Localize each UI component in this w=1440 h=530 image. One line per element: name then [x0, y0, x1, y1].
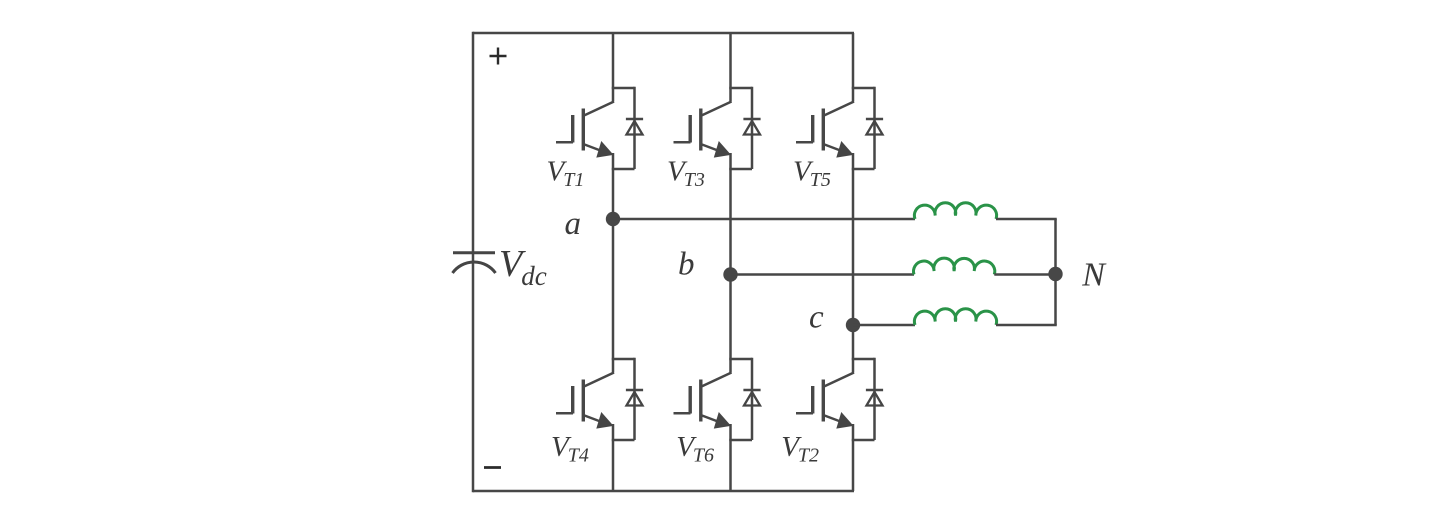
wire: collector jog of VT2 — [852, 358, 875, 361]
capacitor Vdc (DC-link) — [453, 253, 496, 273]
wire: collector jog of VT4 — [612, 358, 635, 361]
wire: leg b upper collector segment — [729, 33, 732, 102]
svg-text:VT1: VT1 — [547, 156, 585, 192]
wire: neutral vertical bus — [1054, 219, 1057, 325]
transistor VT6 (IGBT) — [674, 373, 732, 429]
svg-text:VT3: VT3 — [667, 156, 705, 192]
wire: leg a lower emitter segment — [612, 424, 615, 491]
wire: phase b to inductor — [731, 273, 915, 276]
wire: leg c mid segment — [852, 153, 855, 373]
wire: bottom DC bus rail — [473, 490, 854, 493]
transistor VT5 (IGBT) — [796, 102, 854, 158]
diode D-VT2 (antiparallel) — [866, 358, 883, 440]
node c (junction dot) — [846, 318, 860, 332]
wire: inductor Lc to node N branch — [996, 324, 1057, 327]
transistor VT2 (IGBT) — [796, 373, 854, 429]
wire: phase a to inductor — [613, 218, 915, 221]
node N (junction dot) — [1048, 267, 1062, 281]
wire: emitter jog of VT1 — [612, 168, 635, 171]
wire: leg c upper collector segment — [852, 33, 855, 102]
diode D-VT6 (antiparallel) — [743, 358, 760, 440]
wire: inductor La to node N branch — [996, 218, 1057, 221]
wire: leg a mid segment — [612, 153, 615, 373]
wire: left DC rail — [472, 32, 475, 493]
wire: collector jog of VT5 — [852, 87, 875, 90]
svg-text:Vdc: Vdc — [499, 243, 547, 291]
wire: collector jog of VT1 — [612, 87, 635, 90]
wire: collector jog of VT3 — [729, 87, 752, 90]
wire: emitter jog of VT2 — [852, 439, 875, 442]
svg-text:b: b — [678, 247, 695, 283]
wire: emitter jog of VT6 — [729, 439, 752, 442]
svg-text:VT4: VT4 — [551, 431, 589, 467]
svg-text:a: a — [565, 206, 582, 242]
svg-text:VT5: VT5 — [793, 156, 831, 192]
wire: leg a upper collector segment — [612, 33, 615, 102]
wire: inductor Lb to node N — [994, 273, 1055, 276]
svg-text:VT2: VT2 — [781, 431, 819, 467]
wire: leg b mid segment — [729, 153, 732, 373]
diode D-VT1 (antiparallel) — [626, 87, 643, 169]
transistor VT4 (IGBT) — [556, 373, 614, 429]
wire: leg b lower emitter segment — [729, 424, 732, 491]
wire: collector jog of VT6 — [729, 358, 752, 361]
inductor La (phase a) — [914, 203, 996, 219]
wire: top DC bus rail — [473, 32, 854, 35]
svg-text:c: c — [809, 300, 824, 336]
wire: emitter jog of VT3 — [729, 168, 752, 171]
label - (negative bus) — [484, 466, 501, 469]
wire: emitter jog of VT5 — [852, 168, 875, 171]
inductor Lb (phase b) — [914, 258, 995, 274]
wire: phase c to inductor — [853, 324, 915, 327]
inductor Lc (phase c) — [914, 309, 996, 325]
wire: leg c lower emitter segment — [852, 424, 855, 491]
svg-text:N: N — [1081, 257, 1107, 294]
label + (positive bus) — [490, 48, 507, 65]
diode D-VT4 (antiparallel) — [626, 358, 643, 440]
diode D-VT3 (antiparallel) — [743, 87, 760, 169]
transistor VT3 (IGBT) — [674, 102, 732, 158]
node b (junction dot) — [723, 267, 737, 281]
node a (junction dot) — [606, 212, 620, 226]
transistor VT1 (IGBT) — [556, 102, 614, 158]
wire: emitter jog of VT4 — [612, 439, 635, 442]
diode D-VT5 (antiparallel) — [866, 87, 883, 169]
svg-text:VT6: VT6 — [676, 431, 714, 467]
